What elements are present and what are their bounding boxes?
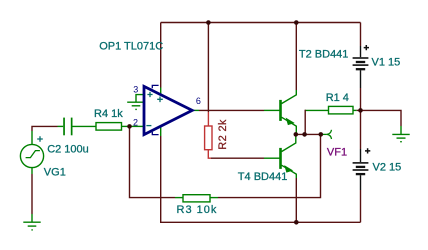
label OP1: [99, 41, 163, 53]
op-amp input + mark pin3: [147, 92, 152, 97]
wire supply node to right ground: [361, 110, 402, 134]
ground op-amp pin3: [127, 95, 145, 110]
battery V2: [353, 163, 369, 174]
wire feedback left drop: [129, 126, 183, 197]
wire node to op-amp pin2: [130, 125, 144, 127]
generator VG1: [20, 144, 43, 167]
ground right (output load): [392, 134, 409, 141]
svg-text:OP1 TL071C: OP1 TL071C: [99, 41, 163, 53]
label V2: [373, 162, 402, 174]
svg-text:V2 15: V2 15: [373, 162, 402, 174]
label T2: [299, 48, 349, 60]
resistor R2: [205, 126, 212, 150]
resistor R3: [183, 195, 210, 202]
junction dot R1 drop: [302, 132, 307, 137]
wire R4 to node: [122, 125, 130, 127]
svg-text:C2 100u: C2 100u: [47, 143, 89, 155]
wire top rail V+: [161, 22, 361, 24]
transistor T2: [281, 90, 297, 134]
pin number 2: [133, 117, 138, 127]
svg-text:VG1: VG1: [44, 167, 66, 179]
label C2: [47, 143, 89, 155]
op-amp input - mark pin2: [146, 125, 151, 127]
junction dot probe node: [319, 132, 324, 137]
wire R2 bottom to T4 base: [208, 150, 280, 159]
wire R2 top from rail: [207, 23, 209, 127]
wire T2 collector to rail: [295, 23, 297, 91]
battery V1: [353, 58, 369, 69]
capacitor C2: [63, 118, 72, 136]
label VF1: [327, 146, 347, 158]
wire output node row: [296, 133, 321, 135]
ground VG1: [23, 222, 40, 230]
junction dot bottom rail T4: [294, 220, 299, 225]
junction dot output emitters: [294, 132, 299, 137]
label V1: [372, 56, 401, 68]
junction dot rail-T2 collector: [294, 20, 299, 25]
transistor T4: [281, 134, 297, 178]
svg-text:R3 10k: R3 10k: [177, 204, 218, 216]
wire op-amp output: [192, 109, 280, 111]
wire VG1 to C2 input row: [31, 126, 63, 144]
wire V2 top: [360, 110, 362, 162]
pin number 3: [133, 85, 138, 95]
wire V1 top: [360, 23, 362, 58]
wire V2 bottom: [360, 175, 362, 222]
resistor R4: [96, 123, 122, 131]
label R1: [326, 92, 349, 104]
label VG1: [44, 167, 66, 179]
junction dot rail-R2: [206, 20, 211, 25]
label R2 rotated: [217, 119, 229, 150]
svg-text:T2 BD441: T2 BD441: [299, 48, 349, 60]
wire C2 to R4: [73, 125, 97, 127]
resistor R1: [329, 106, 354, 114]
op-amp V- supply mark: [152, 132, 158, 135]
wire op-amp V+ drop: [160, 23, 162, 96]
battery V2 + mark: [365, 148, 370, 153]
wire R1 left lead and drop: [305, 110, 328, 135]
svg-text:V1 15: V1 15: [372, 56, 401, 68]
svg-text:2: 2: [133, 117, 138, 127]
svg-text:R1 4: R1 4: [326, 92, 349, 104]
label T4: [238, 171, 288, 183]
wire R1 right to supply node: [353, 109, 361, 111]
voltage probe VF1: [321, 130, 332, 139]
label R4: [94, 108, 123, 120]
op-amp V+ supply mark: [152, 85, 158, 88]
wire op-amp V- drop: [160, 126, 162, 222]
wire T4 emitter to bottom rail: [295, 178, 297, 222]
svg-text:R2 2k: R2 2k: [217, 119, 229, 150]
wire feedback right run: [210, 134, 321, 198]
svg-text:R4 1k: R4 1k: [94, 108, 123, 120]
svg-text:6: 6: [196, 96, 201, 106]
wire V1 bottom: [360, 70, 362, 110]
wire bottom rail: [160, 221, 361, 223]
junction dot supply node: [358, 108, 363, 113]
op-amp U1 triangle: [144, 86, 192, 134]
wire VG1 bottom to ground: [31, 168, 33, 222]
junction dot input node: [127, 124, 132, 129]
label R3: [177, 204, 218, 216]
pin number 6: [196, 96, 201, 106]
svg-text:VF1: VF1: [327, 146, 347, 158]
op-amp big + mark: [157, 97, 163, 103]
svg-text:3: 3: [133, 85, 138, 95]
svg-text:T4 BD441: T4 BD441: [238, 171, 288, 183]
VG1 polarity +: [37, 136, 43, 142]
battery V1 + mark: [364, 45, 369, 50]
